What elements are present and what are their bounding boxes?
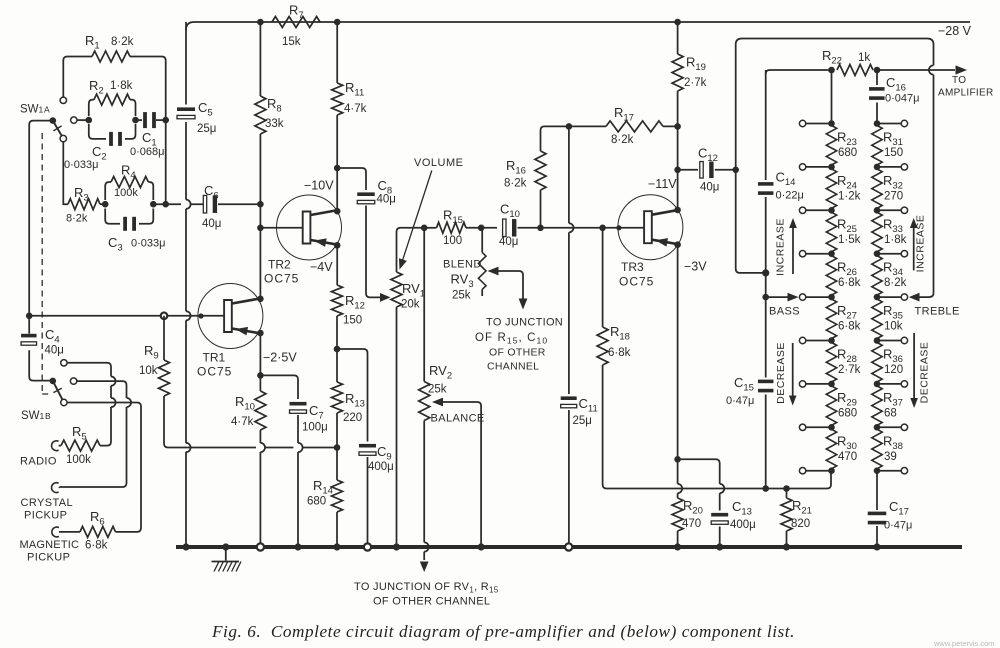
junction base blob [198,313,203,318]
label TR2 [268,258,291,272]
svg-text:−4V: −4V [310,260,333,274]
capacitor C7 [290,402,307,413]
label RV2 [429,363,452,382]
label C4 [45,327,60,346]
parallel group R2 C2 frame [89,100,136,139]
wire R14 bottom [336,512,338,547]
label R22 [822,48,842,67]
svg-text:8·2k: 8·2k [66,213,88,225]
svg-text:40μ: 40μ [377,194,396,206]
wire RV2 bottom [424,421,429,561]
svg-text:OF OTHER CHANNEL: OF OTHER CHANNEL [373,596,490,608]
svg-text:400μ: 400μ [368,461,394,473]
wire R20 bottom [677,531,679,547]
resistor R2 [94,94,130,105]
svg-text:8·2k: 8·2k [504,178,527,190]
junction C8 top [334,165,341,172]
capacitor C5 [177,107,195,118]
resistor R9 [159,360,170,396]
switch SW1A upper contact [60,97,66,103]
svg-text:820: 820 [791,518,810,530]
label C7 [309,403,324,422]
value C14 0.22u [776,190,804,202]
svg-text:1k: 1k [858,52,870,64]
wire R19 top [677,22,679,54]
wire C12 right [715,169,736,171]
svg-text:TR2: TR2 [268,258,291,272]
label R21 [792,498,812,517]
junction R13 bottom [334,444,341,451]
resistor R10 [255,391,266,430]
svg-text:2·7k: 2·7k [684,77,707,89]
switch SW1B pole [50,378,57,385]
label SW1A [20,104,50,116]
capacitor C4 [21,334,37,345]
voltage label -2.5V [263,351,297,365]
svg-text:100k: 100k [66,454,91,466]
label R6 [90,509,105,528]
wire R9 bottom [164,396,186,448]
svg-text:680: 680 [307,496,326,508]
switch SW1B contact radio [61,360,67,366]
wire TR3 emitter down [677,245,679,460]
svg-text:680: 680 [838,147,857,159]
junction C7 branch [257,372,264,379]
label R8 [267,96,282,115]
label TO AMPLIFIER [938,75,994,99]
power label -28V [938,24,972,38]
wire R18 bottom [603,365,673,489]
junction TR2 base node [257,225,264,232]
resistor R20 [672,498,683,531]
junctions right chain [874,120,881,474]
capacitor C9 [359,444,376,455]
junction TR1 emitter [257,330,264,337]
capacitor C16 [869,87,885,100]
svg-text:120: 120 [884,364,903,376]
label R13 [345,391,365,410]
svg-text:1·5k: 1·5k [838,234,861,246]
svg-text:470: 470 [838,451,857,463]
potentiometer RV2 [419,382,430,421]
svg-text:33k: 33k [265,118,284,130]
svg-text:MAGNETIC: MAGNETIC [20,539,80,551]
arrow decrease left [789,343,797,406]
voltage label -10V [304,179,334,193]
junction C9 branch [334,346,341,353]
wire RV1 top [397,228,425,272]
value R15 100 [443,235,462,247]
wire C13 top [678,459,725,510]
svg-text:0·47μ: 0·47μ [726,395,754,407]
value C5 25u [197,123,216,135]
svg-text:6·8k: 6·8k [608,347,631,359]
wire C15 vertical [765,297,767,488]
wire RV3 top [481,228,483,253]
value R3 8.2k [66,213,88,225]
svg-text:TO: TO [952,75,966,86]
label BASS [769,306,800,318]
svg-text:−2·5V: −2·5V [263,351,297,365]
ground symbol [212,547,242,572]
resistor R12 [332,285,343,316]
svg-text:150: 150 [343,315,362,327]
resistor R13 [332,382,343,413]
value C4 40u [45,345,64,357]
junctions left chain [828,120,835,474]
transistor TR2 OC75 [277,195,342,260]
input jack crystal [52,483,60,493]
capacitor C11 [561,396,577,407]
label RADIO [20,456,57,468]
junction R2-C1 [132,117,139,124]
svg-text:TO JUNCTION OF RV1, R15: TO JUNCTION OF RV1, R15 [354,581,499,595]
label R5 [72,424,87,443]
junction R16 bottom [537,225,544,232]
junction C12 left [674,167,681,174]
svg-text:8·2k: 8·2k [611,134,634,146]
wire R8 bottom [259,134,261,228]
resistor R19 [672,54,683,91]
junction C6-R8 [257,201,264,208]
svg-text:150: 150 [884,147,903,159]
junction C1-R1 node [162,117,169,124]
wire contact3 to magnetic [67,403,141,532]
label R10 [235,394,255,413]
svg-text:0·22μ: 0·22μ [776,190,804,202]
svg-text:400μ: 400μ [730,519,756,531]
label to-junction-RV1-R15 arrow text [354,581,499,608]
wire R11 top [336,22,338,83]
wire C8 top [337,168,366,190]
svg-text:VOLUME: VOLUME [414,157,463,169]
capacitor C15 [758,380,774,393]
svg-text:8·2k: 8·2k [111,36,134,48]
label decrease left [775,342,787,404]
wire emitter bus [186,447,337,449]
svg-text:RADIO: RADIO [20,456,57,468]
value R21 820 [791,518,810,530]
junction R3R4-C1 node [162,201,169,208]
junction R22 left [828,67,835,74]
value RV3 25k [452,290,471,302]
value C8 40u [377,194,396,206]
value C15 0.47u [726,395,754,407]
label TR1 type OC75 [197,365,232,379]
label CRYSTAL PICKUP [21,497,74,522]
input jack magnetic [52,527,80,537]
svg-text:TR3: TR3 [621,260,644,274]
label C2 [92,144,107,163]
junction RV3 top [478,225,485,232]
svg-text:A: A [44,105,50,115]
parallel group R4 C3 frame [105,182,153,224]
junction C15 bottom [762,485,769,492]
label C12 [698,146,718,165]
svg-text:68: 68 [884,407,897,419]
wire C11 vertical [569,126,574,547]
junction TR1 base-left node [26,313,33,320]
wire C7 top [260,375,298,399]
svg-text:PICKUP: PICKUP [27,552,70,564]
switch SW1B contact magnetic [61,399,67,405]
label R20 [683,498,703,517]
label R18 [610,324,630,343]
svg-text:0·068μ: 0·068μ [130,146,164,158]
label C17 [889,499,909,518]
switch SW1A pole [50,117,57,124]
junction C12 right [732,167,739,174]
value C7 100u [302,422,328,434]
value C3 0.033u [131,238,165,250]
wire C8 bottom to RV1 wiper [366,206,391,302]
contacts left chain [799,120,831,474]
arrow increase left [789,218,797,274]
capacitor C8 [357,192,375,203]
svg-text:PICKUP: PICKUP [24,510,67,522]
label RV3 [451,272,474,291]
resistor R15 [437,222,467,233]
svg-text:OC75: OC75 [264,272,299,286]
wire C6 right [218,203,260,205]
svg-text:−11V: −11V [648,177,677,191]
label R1 [85,33,100,52]
svg-text:40μ: 40μ [202,218,221,230]
wire R22 left down to ladder [831,70,833,124]
switch SW1A blade [53,121,62,137]
wire C12 left [678,169,698,171]
svg-text:100: 100 [443,235,462,247]
value C2 0.033u [64,159,98,171]
label C3 [108,235,123,254]
label C1 [142,130,157,149]
wire C1 right [156,119,166,121]
value R12 150 [343,315,362,327]
labels R31-R38 [883,130,907,463]
value C11 25u [573,415,592,427]
wire signal R15 segment [424,227,436,229]
capacitor C14 [758,182,774,195]
svg-text:4·7k: 4·7k [231,416,254,428]
label R2 [89,78,104,97]
svg-text:6·8k: 6·8k [838,321,861,333]
resistor R22 [837,65,873,76]
transistor TR1 OC75 [198,284,263,349]
wire R11 bottom [336,115,338,211]
junction RV2 top [421,225,428,232]
voltage label -3V [684,260,707,274]
capacitor C10 [503,219,517,237]
ground rail [176,545,962,549]
svg-text:www.petervis.com: www.petervis.com [933,639,994,648]
resistor R8 [255,96,266,134]
wire C5 branch vertical [186,22,191,547]
label C14 [776,170,796,189]
label TREBLE [915,306,960,318]
capacitor C2 [109,132,122,146]
value R5 100k [66,454,91,466]
wire C9 top [337,349,368,442]
wire TR1 emitter down [259,333,261,375]
value R2 1.8k [110,80,133,92]
wire R15 to C10 [466,227,497,229]
wire C13 bottom [719,527,721,548]
resistor R1 [92,51,130,62]
svg-text:100k: 100k [114,187,138,199]
wire C14 vertical [765,70,767,297]
arrow increase right [910,218,918,270]
junction R9 tap [161,313,168,320]
value R22 1k [858,52,870,64]
wire TR2 base [260,227,302,229]
capacitor C13 [711,513,728,524]
wire C9 bottom [367,457,369,547]
value R9 10k [139,365,158,377]
svg-text:TO JUNCTION: TO JUNCTION [486,317,563,329]
wire R9 [163,316,165,360]
wire R19 bottom [677,91,679,212]
wire TR2 emitter down [336,245,338,285]
switch wire to R2 [77,119,89,121]
wire R18 top [602,228,604,327]
value R19 2.7k [684,77,707,89]
wire C17 top [876,471,878,510]
wire R20 [678,459,683,498]
wire emitter return bus [673,471,831,489]
label C9 [377,444,392,463]
value C13 400u [730,519,756,531]
label R3 [74,185,89,204]
capacitor C6 [203,195,217,213]
value R1 8.2k [111,36,134,48]
label C5 [198,100,213,119]
resistor chain R31-R38 [872,124,882,471]
junction R17 right [674,123,681,130]
label decrease right [919,342,931,404]
wire SW1A lower to R3 [63,142,68,204]
svg-text:TR1: TR1 [203,351,226,365]
svg-text:39: 39 [884,451,897,463]
svg-text:10k: 10k [139,365,158,377]
svg-text:OC75: OC75 [197,365,232,379]
wire to amplifier [877,69,955,71]
junction TR2 collector [334,208,341,215]
wire R8 top [259,22,261,96]
svg-text:1: 1 [40,411,45,421]
ground rail junctions [182,543,880,550]
value R14 680 [307,496,326,508]
arrow decrease right [910,333,918,408]
label C10 [500,202,520,221]
wire RV3 wiper [488,267,528,310]
wire C7 bottom [298,415,303,547]
svg-text:270: 270 [884,190,903,202]
resistor R16 [535,151,546,190]
value RV2 25k [428,384,447,396]
wire R3 right [100,203,105,205]
svg-text:0·47μ: 0·47μ [884,520,912,532]
label R14 [313,478,333,497]
wire R17 bus [541,126,678,227]
svg-text:100μ: 100μ [302,422,328,434]
svg-text:OF OTHER: OF OTHER [489,347,546,359]
svg-text:6·8k: 6·8k [85,540,108,552]
junction base blob TR3 [616,225,621,230]
svg-text:Fig. 6. Complete circuit diag: Fig. 6. Complete circuit diagram of pre-… [211,622,795,641]
junction bass node [762,294,769,301]
junction TR3 emitter [674,241,681,248]
caption figure 6 [211,622,795,641]
label C15 [734,375,754,394]
junction TR1 collector [257,296,264,303]
switch SW1B blade [53,381,63,400]
input jack radio [52,441,61,451]
wire C17 bottom [876,526,878,547]
svg-text:680: 680 [838,407,857,419]
transistor TR3 OC75 [618,195,683,260]
svg-text:8·2k: 8·2k [884,277,907,289]
svg-text:BALANCE: BALANCE [431,413,485,425]
value R7 15k [282,36,301,48]
svg-text:TREBLE: TREBLE [915,306,960,318]
svg-text:OC75: OC75 [619,275,654,289]
value C9 400u [368,461,394,473]
svg-text:BASS: BASS [769,306,800,318]
label R16 [506,158,526,177]
junction R21 top [783,485,790,492]
svg-text:INCREASE: INCREASE [775,218,787,276]
svg-text:4·7k: 4·7k [344,103,367,115]
wire contact2 to crystal [60,381,132,487]
switch SW1B contact crystal [70,378,76,384]
label SW1B [21,410,51,422]
svg-text:40μ: 40μ [700,182,719,194]
label R4 [121,163,136,182]
svg-text:40μ: 40μ [45,345,64,357]
svg-text:CHANNEL: CHANNEL [487,361,539,373]
svg-text:10k: 10k [884,321,903,333]
wire R14 top [336,448,338,481]
switch SW1A middle contact [71,117,77,123]
capacitor C1 [143,112,156,128]
arrow bass wiper [766,293,799,302]
svg-text:−10V: −10V [304,179,334,193]
wire C4 vertical [29,316,53,381]
svg-text:220: 220 [343,412,362,424]
label MAGNETIC PICKUP [20,539,80,564]
wire R13 bottom [336,413,338,448]
svg-text:470: 470 [682,518,701,530]
label C8 [378,178,393,197]
value R17 8.2k [611,134,634,146]
svg-text:1·8k: 1·8k [884,234,907,246]
resistor R18 [597,327,608,365]
svg-text:1·2k: 1·2k [838,190,861,202]
resistor R17 [606,121,663,132]
value C10 40u [499,236,518,248]
resistor R11 [332,83,343,115]
wire C12 up to -28V line [736,39,934,294]
junction R2-C2 left [86,117,93,124]
svg-text:0·047μ: 0·047μ [885,93,919,105]
label TR2 type OC75 [264,272,299,286]
wire C10 to TR3 base [518,227,644,229]
value R16 8.2k [504,178,527,190]
label C11 [579,396,598,415]
svg-text:DECREASE: DECREASE [775,342,787,404]
wire R12 bottom [336,316,338,382]
svg-text:−28 V: −28 V [938,24,972,38]
